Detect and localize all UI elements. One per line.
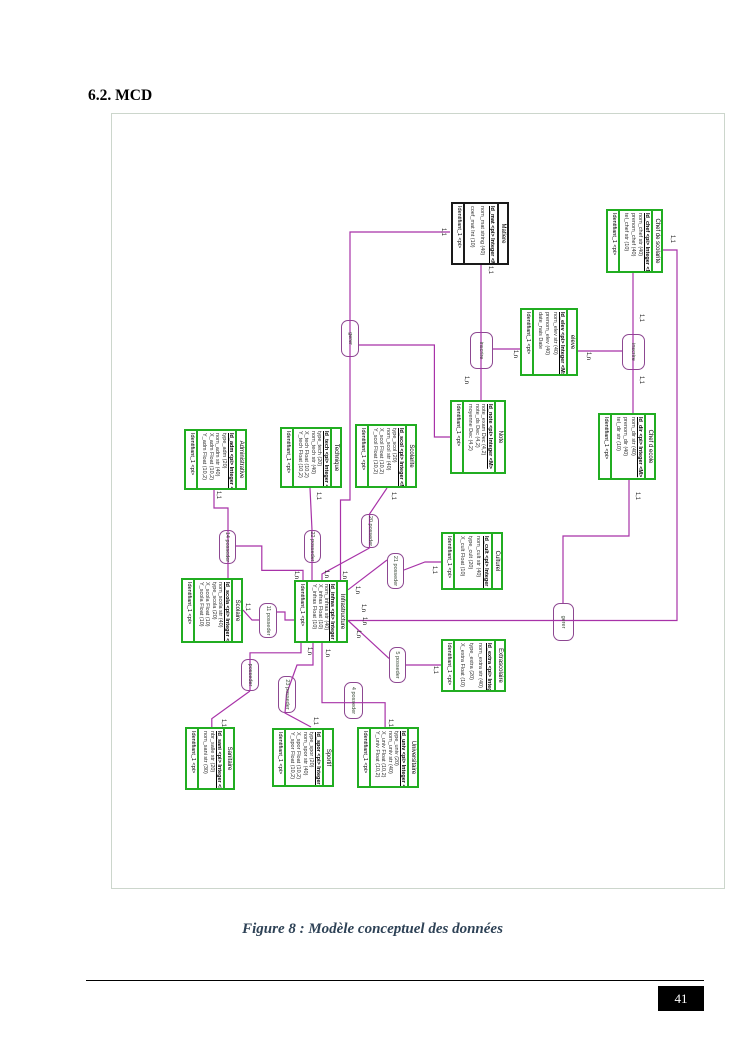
wire Infrastructure-posseder21 (348, 560, 387, 590)
relationship gerer (341, 320, 359, 357)
wire posseder5-Extrascolaire (406, 664, 441, 666)
entity Chef d ecole (598, 413, 656, 480)
wire posseder14-Scolaire (227, 564, 229, 580)
cardinality 1,1 (215, 491, 222, 499)
relationship gerer (553, 603, 574, 641)
relationship inscrire (470, 332, 493, 369)
relationship 23 posseder (278, 676, 296, 713)
cardinality 1,n (512, 350, 519, 358)
relationship label 14 posseder (219, 530, 236, 564)
wire Infrastructure-posseder4 (322, 643, 363, 703)
entity Scolaire (181, 578, 243, 643)
relationship label inscrire (470, 332, 493, 369)
entity Sportif (272, 728, 334, 787)
cardinality 1,n (360, 604, 367, 612)
cardinality 1,1 (244, 603, 251, 611)
entity Scolarite (355, 424, 417, 488)
cardinality 1,n (341, 571, 348, 579)
wire inscrire-Note (480, 369, 482, 400)
relationship label inscrire (622, 334, 645, 370)
entity Universitaire (357, 727, 419, 788)
relationship 14 posseder (219, 530, 236, 564)
relationship 4 posseder (344, 682, 363, 719)
diagram frame (111, 113, 725, 889)
wire Infrastructure-posseder5 (348, 621, 389, 659)
entity Matiere (451, 202, 509, 265)
cardinality 1,1 (220, 719, 227, 727)
cardinality 1,1 (312, 717, 319, 725)
entity eleve (520, 308, 578, 376)
cardinality 1,1 (634, 492, 641, 500)
entity Technique (280, 427, 342, 488)
wire ChefScolarite-gerer2 (553, 250, 677, 621)
wire posseder-Sanitaire (212, 691, 250, 727)
relationship label 4 posseder (344, 682, 363, 719)
entity Extrascolaire (441, 639, 506, 692)
cardinality 1,n (463, 376, 470, 384)
relationship 20 posseder (361, 514, 379, 548)
wire Infrastructure-posseder23 (287, 643, 314, 694)
section heading (88, 87, 152, 105)
entity Sanitaire (185, 727, 235, 790)
relationship label 5 posseder (389, 647, 406, 683)
cardinality 1,n (361, 617, 368, 625)
wire Technique-posseder22 (310, 488, 312, 580)
cardinality 1,1 (315, 492, 322, 500)
entity Chef de scolarite (606, 209, 663, 273)
wire ChefEcole-gerer2 (563, 480, 629, 603)
wire Infrastructure-posseder11 (277, 612, 294, 620)
cardinality 1,1 (638, 376, 645, 384)
cardinality 1,n (354, 586, 361, 594)
page number (658, 986, 704, 1011)
cardinality 1,1 (638, 314, 645, 322)
wire posseder4-Universitaire (363, 703, 385, 727)
cardinality 1,1 (432, 666, 439, 674)
wire inscrire2-ChefEcole (632, 370, 634, 413)
relationship label posseder (241, 659, 259, 691)
wire ChefScolarite-inscrire2 (632, 273, 634, 370)
cardinality 1,1 (440, 228, 447, 236)
relationship label 20 posseder (361, 514, 379, 548)
relationship label gerer (341, 320, 359, 357)
footer rule (86, 980, 704, 981)
cardinality 1,1 (431, 566, 438, 574)
wire posseder11-Scolaire (243, 610, 259, 620)
wire posseder21-Culturel (404, 562, 441, 570)
relationship label gerer (553, 603, 574, 641)
cardinality 1,n (293, 571, 300, 579)
wire Matiere-inscrire (480, 264, 482, 369)
wire Infrastructure-posseder (250, 643, 301, 691)
relationship 21 posseder (387, 553, 404, 589)
entity Note (450, 400, 506, 474)
entity Infrastructure (294, 580, 348, 643)
cardinality 1,1 (669, 235, 676, 243)
relationship 5 posseder (389, 647, 406, 683)
cardinality 1,n (323, 570, 330, 578)
wire posseder14-Infrastructure (236, 546, 303, 580)
relationship label 21 posseder (387, 553, 404, 589)
wire eleve-inscrire2 (578, 350, 622, 352)
entity Administrative (184, 429, 247, 490)
cardinality 1,n (324, 649, 331, 657)
cardinality 1,n (355, 630, 362, 638)
wire Administrative-posseder14 (214, 490, 228, 564)
cardinality 1,n (306, 647, 313, 655)
wire gerer-Note (359, 345, 450, 437)
figure caption (0, 921, 745, 938)
relationship label 11 posseder (259, 603, 277, 638)
cardinality 1,1 (387, 719, 394, 727)
entity Culturel (441, 532, 503, 590)
relationship label 23 posseder (278, 676, 296, 713)
relationship label 22 posseder (304, 530, 321, 563)
wire eleve-inscrire (493, 348, 520, 350)
wire posseder20-Infrastructure (322, 548, 370, 580)
wire gerer2-Infrastructure (348, 620, 553, 622)
relationship inscrire (622, 334, 645, 370)
cardinality 1,n (585, 352, 592, 360)
wire Scolarite-posseder20 (370, 488, 388, 548)
relationship posseder (241, 659, 259, 691)
cardinality 1,1 (390, 492, 397, 500)
cardinality 1,1 (487, 266, 494, 274)
wire gerer-Infrastructure (341, 357, 351, 580)
relationship 11 posseder (259, 603, 277, 638)
wire Matiere-gerer (350, 232, 450, 357)
relationship 22 posseder (304, 530, 321, 563)
wire posseder23-Sportif (285, 694, 311, 727)
